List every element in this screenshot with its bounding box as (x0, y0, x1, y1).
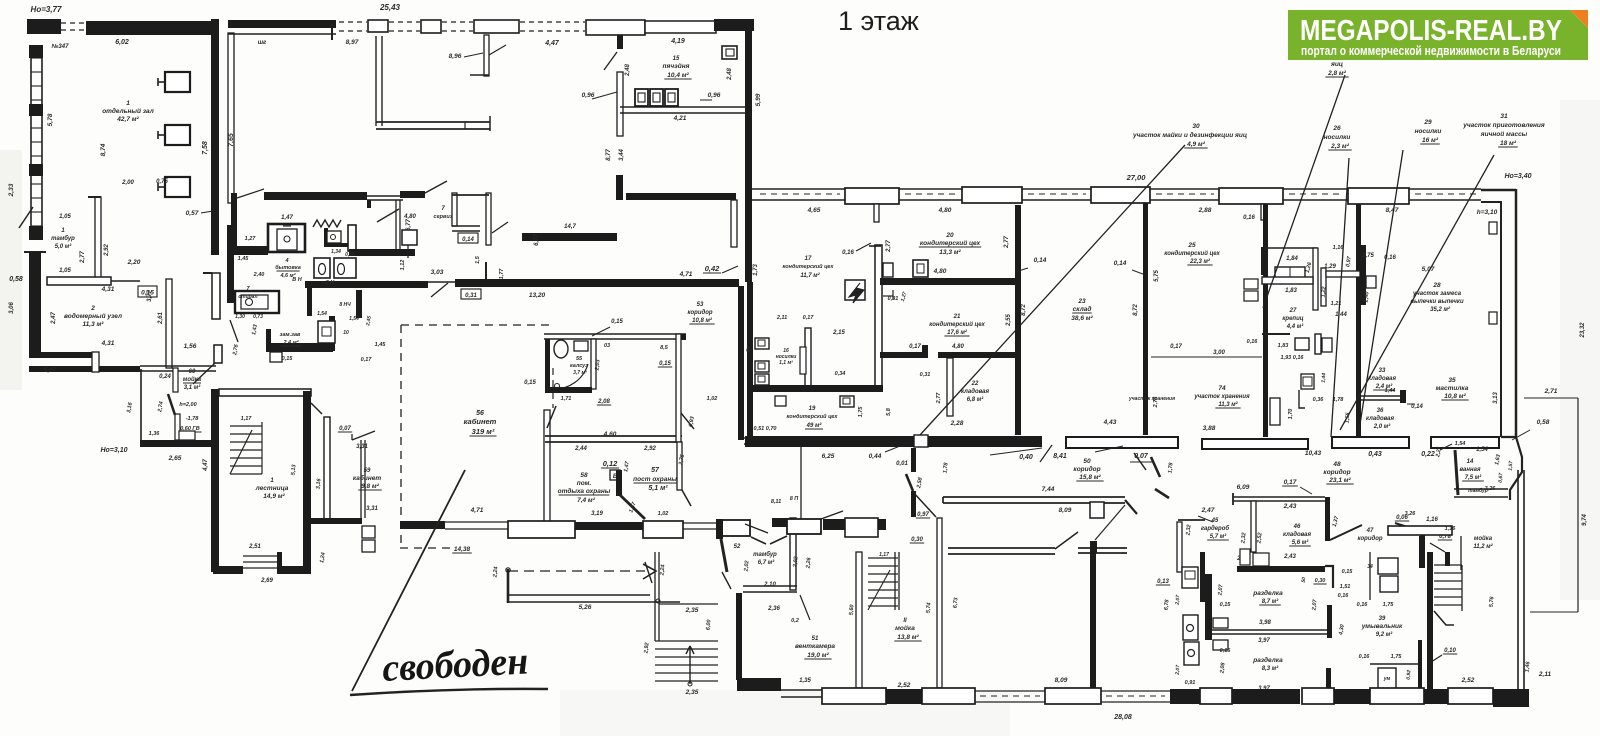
wall x1263 (1263, 204, 1268, 437)
svg-text:10,8 м²: 10,8 м² (692, 317, 713, 324)
svg-text:1,16: 1,16 (1445, 526, 1457, 532)
svg-text:умывальник: умывальник (1361, 623, 1403, 630)
svg-text:пом.: пом. (577, 480, 592, 487)
dashes (520, 21, 585, 23)
svg-text:кондитерский цех: кондитерский цех (920, 239, 981, 247)
serving hatch wall drop (484, 35, 489, 76)
svg-text:2,20: 2,20 (127, 259, 141, 266)
svg-text:15,8 м²: 15,8 м² (1079, 474, 1101, 481)
svg-text:0,16: 0,16 (1243, 215, 1255, 221)
svg-text:10: 10 (343, 330, 349, 336)
svg-text:склад: склад (1073, 305, 1092, 313)
svg-text:2,61: 2,61 (158, 312, 164, 325)
svg-text:1,51: 1,51 (1340, 584, 1351, 590)
hatch door diag (489, 45, 506, 55)
svg-text:0,16: 0,16 (1338, 593, 1350, 599)
svg-text:51: 51 (812, 636, 819, 642)
svg-text:4,21: 4,21 (673, 115, 687, 122)
svg-text:50: 50 (1301, 577, 1307, 583)
svg-text:6,25: 6,25 (822, 453, 835, 460)
door diag wall D (431, 283, 448, 297)
big room top wall y548 (948, 547, 1055, 549)
svg-text:отдельный зал: отдельный зал (102, 107, 154, 115)
svg-text:1,57: 1,57 (1508, 461, 1515, 471)
svg-text:5,0 м²: 5,0 м² (55, 243, 72, 250)
svg-text:2,52: 2,52 (1256, 532, 1263, 544)
main wall D (455, 279, 739, 287)
svg-text:1,70: 1,70 (1288, 409, 1294, 420)
serving room walls (452, 193, 457, 226)
svg-text:1,54: 1,54 (349, 316, 359, 322)
svg-text:1,12: 1,12 (400, 260, 406, 271)
svg-text:кондитерский цех: кондитерский цех (787, 413, 839, 420)
svg-text:тамбур: тамбур (51, 235, 75, 242)
razdelka mid band (1205, 629, 1327, 631)
svg-text:17: 17 (805, 256, 812, 262)
pier r2 (962, 187, 1022, 203)
svg-text:2,92: 2,92 (643, 446, 656, 452)
svg-text:носилки: носилки (1415, 128, 1442, 135)
svg-text:шг: шг (258, 40, 267, 46)
wall x1143 (1143, 203, 1148, 435)
hall table 2 (165, 125, 190, 145)
svg-text:Но=3,40: Но=3,40 (1504, 173, 1531, 180)
svg-text:20: 20 (945, 232, 954, 239)
svg-text:0,24: 0,24 (159, 374, 171, 380)
svg-text:0,15: 0,15 (524, 380, 536, 386)
svg-text:6,8 м²: 6,8 м² (967, 396, 984, 403)
svg-text:319 м²: 319 м² (472, 427, 495, 436)
svg-text:0,16: 0,16 (1247, 339, 1259, 345)
svg-text:крепиц: крепиц (1282, 316, 1303, 322)
svg-text:2,32: 2,32 (1240, 532, 1247, 544)
zamzav room (266, 329, 271, 350)
svg-text:2,07: 2,07 (1311, 598, 1318, 611)
svg-text:50: 50 (1083, 458, 1091, 465)
svg-text:h=3,10: h=3,10 (1477, 209, 1498, 216)
room45 divider (1251, 501, 1256, 552)
svg-text:3,31: 3,31 (366, 506, 378, 512)
pier r4 (1219, 188, 1283, 204)
svg-text:9,8 м²: 9,8 м² (361, 483, 380, 490)
svg-text:3,77: 3,77 (147, 290, 153, 302)
coat zigzag (313, 220, 341, 227)
svg-text:2,33: 2,33 (8, 183, 15, 197)
svg-text:35: 35 (1448, 377, 1456, 384)
svg-text:2,26: 2,26 (805, 556, 812, 569)
wall seg (1150, 188, 1219, 190)
svg-text:55: 55 (576, 356, 583, 362)
svg-text:0,75: 0,75 (156, 179, 168, 185)
door leaf near 425 (425, 181, 447, 193)
svg-text:26: 26 (1332, 125, 1341, 132)
svg-text:2,77: 2,77 (1004, 236, 1010, 249)
svg-text:8,5: 8,5 (660, 345, 669, 351)
dashed boundary kabinet56 (400, 325, 402, 545)
band C kitchen wall (522, 233, 617, 241)
svg-text:кондитерский цех: кондитерский цех (783, 263, 835, 270)
svg-text:3,31: 3,31 (356, 444, 368, 450)
svg-text:тамбур: тамбур (753, 551, 777, 558)
svg-text:3,19: 3,19 (591, 511, 603, 517)
svg-text:2,44: 2,44 (574, 446, 587, 452)
svg-text:0,97: 0,97 (917, 512, 929, 518)
svg-text:0,42: 0,42 (705, 264, 720, 273)
svg-text:36: 36 (1377, 408, 1384, 414)
svg-text:ванная: ванная (1460, 467, 1481, 473)
svg-text:1,36: 1,36 (149, 431, 161, 437)
razdelka top band (1237, 566, 1325, 572)
svg-text:1,1 м²: 1,1 м² (779, 360, 793, 366)
wall below tambour (736, 593, 742, 680)
svg-text:8,09: 8,09 (1059, 507, 1072, 514)
pier r1 mullion stub (874, 204, 879, 222)
svg-text:53: 53 (697, 302, 704, 308)
svg-text:мойка: мойка (183, 376, 202, 383)
svg-text:10,4 м²: 10,4 м² (667, 72, 689, 79)
svg-text:3,1 м²: 3,1 м² (184, 384, 201, 391)
corridor53 top wall (544, 333, 686, 335)
svg-text:участок приготовления: участок приготовления (1462, 122, 1545, 129)
svg-text:участок хранения: участок хранения (1128, 396, 1175, 402)
svg-text:0,91: 0,91 (1185, 680, 1196, 686)
svg-text:2,24: 2,24 (492, 566, 499, 578)
svg-text:портал о коммерческой недвижим: портал о коммерческой недвижимости в Бел… (1301, 43, 1561, 58)
hall counter lines (375, 36, 377, 126)
svg-text:3,88: 3,88 (1203, 425, 1216, 432)
wall x1200 lower (1200, 552, 1205, 602)
svg-text:2,36: 2,36 (767, 606, 780, 612)
svg-text:4,31: 4,31 (101, 286, 115, 293)
svg-text:2,52: 2,52 (1461, 677, 1475, 684)
svg-text:1,78: 1,78 (1333, 397, 1345, 403)
svg-text:1,54: 1,54 (317, 311, 327, 317)
svg-text:1,5: 1,5 (475, 255, 481, 264)
svg-text:2,48: 2,48 (625, 64, 631, 77)
room58 walls (545, 435, 682, 437)
svg-text:9,74: 9,74 (1582, 514, 1588, 526)
svg-text:1,45: 1,45 (238, 256, 250, 262)
svg-text:48: 48 (1332, 461, 1341, 468)
svg-text:6,78: 6,78 (1164, 598, 1171, 610)
svg-text:4,19: 4,19 (670, 38, 685, 45)
room33 bottom wall (1361, 395, 1404, 397)
left window wall (30, 45, 32, 240)
svg-text:38,6 м²: 38,6 м² (1071, 315, 1093, 322)
room55 right wall (591, 339, 596, 389)
svg-text:11,7 м²: 11,7 м² (800, 272, 820, 279)
svg-text:1,78: 1,78 (1168, 461, 1175, 473)
toilet tank (402, 230, 417, 245)
svg-text:0,14: 0,14 (1114, 260, 1127, 267)
svg-text:2,24: 2,24 (659, 564, 666, 576)
room21 notch (883, 295, 893, 297)
left band (231, 246, 268, 255)
svg-text:участок хранения: участок хранения (1193, 394, 1250, 400)
svg-text:0,14: 0,14 (1411, 404, 1423, 410)
svg-text:б: б (746, 347, 750, 354)
room below 34 moyka (1388, 526, 1452, 535)
column box (1090, 502, 1104, 518)
svg-text:кондитерский цех: кондитерский цех (929, 321, 985, 328)
boxes room74 top (1301, 374, 1314, 389)
svg-text:28,08: 28,08 (1113, 714, 1132, 721)
svg-text:4,80: 4,80 (951, 344, 964, 350)
svg-text:1,22: 1,22 (1321, 286, 1328, 297)
svg-text:7,4 м²: 7,4 м² (577, 497, 596, 504)
svg-text:0,01: 0,01 (896, 461, 908, 467)
corridor band y438 (745, 436, 915, 447)
svg-text:29: 29 (1423, 119, 1432, 126)
svg-text:58: 58 (580, 472, 588, 479)
svg-text:2,28: 2,28 (950, 420, 964, 427)
svg-text:0,40: 0,40 (1019, 454, 1033, 461)
svg-text:6,73: 6,73 (953, 597, 960, 608)
svg-text:стирал: стирал (238, 294, 258, 300)
svg-text:5,8: 5,8 (886, 407, 892, 416)
svg-text:4,31: 4,31 (101, 340, 115, 347)
svg-text:8,77: 8,77 (606, 149, 612, 161)
right edge bottom (1517, 470, 1519, 707)
leader 31 (1340, 155, 1494, 430)
svg-text:яичной массы: яичной массы (1480, 130, 1528, 138)
svg-text:кладовая: кладовая (1366, 416, 1395, 422)
svg-text:14,7: 14,7 (564, 224, 576, 230)
svg-text:0,15: 0,15 (611, 319, 623, 325)
building right edge upper (745, 20, 752, 282)
svg-text:8,11: 8,11 (771, 499, 781, 505)
svg-text:коридор: коридор (687, 310, 712, 316)
svg-text:2,08: 2,08 (1219, 661, 1226, 674)
svg-text:4,9 м²: 4,9 м² (1186, 141, 1206, 148)
svg-text:46: 46 (1293, 524, 1301, 530)
svg-text:19,0 м²: 19,0 м² (807, 652, 829, 659)
corridor47 diag walls (1330, 525, 1362, 540)
svg-text:2,43: 2,43 (1283, 503, 1297, 510)
staircase right wall (303, 391, 311, 572)
svg-text:6,7 м²: 6,7 м² (758, 559, 775, 566)
svg-text:4: 4 (284, 258, 288, 264)
room27 wall v (1313, 248, 1318, 310)
ventkamera walls (856, 552, 862, 688)
razdelka bars (1205, 574, 1212, 640)
toilet row (314, 258, 330, 278)
svg-text:25,43: 25,43 (379, 3, 401, 12)
svg-text:13,8 м²: 13,8 м² (897, 634, 919, 641)
door bars corridor (911, 448, 916, 472)
svg-text:13,20: 13,20 (529, 292, 546, 299)
wall x1356 (1356, 204, 1361, 437)
svg-text:1 этаж: 1 этаж (838, 6, 919, 36)
svg-text:7,65: 7,65 (228, 133, 235, 147)
svg-text:0,44: 0,44 (869, 453, 882, 460)
svg-text:8,47: 8,47 (1386, 207, 1399, 214)
kondit17 band (751, 385, 883, 392)
svg-text:0,16: 0,16 (1357, 602, 1369, 608)
svg-text:15: 15 (673, 56, 680, 62)
window boxes right (1489, 222, 1497, 234)
right edge wall double (1515, 189, 1518, 437)
vert dbl wall x396 (395, 200, 397, 256)
svg-text:4,71: 4,71 (470, 507, 484, 514)
door leaf room15 entry (377, 209, 399, 222)
svg-text:9,2 м²: 9,2 м² (1376, 631, 1393, 638)
svg-text:0,17: 0,17 (361, 357, 373, 363)
svg-text:2,11: 2,11 (1538, 671, 1552, 678)
svg-text:2,08: 2,08 (597, 399, 610, 405)
svg-text:3,26: 3,26 (1405, 511, 1417, 517)
long band y281 (305, 281, 428, 288)
svg-text:0,31: 0,31 (888, 296, 899, 302)
svg-text:мойка: мойка (1474, 535, 1493, 542)
svg-text:14,38: 14,38 (454, 546, 471, 553)
svg-text:4,80: 4,80 (933, 268, 947, 275)
svg-text:2,35: 2,35 (685, 607, 699, 614)
svg-text:8,3 м²: 8,3 м² (1262, 665, 1279, 672)
room45 top wall (1233, 496, 1325, 498)
svg-text:гардероб: гардероб (1201, 525, 1230, 532)
room22 left wall (947, 358, 953, 416)
svg-text:27,00: 27,00 (1126, 173, 1147, 182)
svg-text:35,2 м²: 35,2 м² (1430, 306, 1451, 313)
svg-text:2,40: 2,40 (1363, 291, 1370, 303)
svg-text:3,98: 3,98 (1259, 620, 1271, 626)
svg-text:2,07: 2,07 (1175, 665, 1182, 676)
dashes (389, 21, 420, 23)
room16 boxes stack (755, 338, 769, 349)
bottom-left double wall band (29, 352, 95, 358)
svg-text:2,02: 2,02 (743, 560, 750, 572)
svg-text:тамбур: тамбур (1468, 487, 1488, 494)
svg-text:2 Н: 2 Н (325, 280, 336, 286)
room15 door diag (604, 52, 617, 70)
svg-text:3,13: 3,13 (1493, 392, 1499, 404)
hall table 1 (165, 72, 190, 92)
svg-text:бытовка: бытовка (275, 264, 301, 271)
svg-text:зам.зав: зам.зав (280, 332, 301, 338)
svg-text:1,45: 1,45 (375, 342, 387, 348)
svg-text:2,48: 2,48 (727, 68, 733, 81)
left vertical bar (231, 206, 237, 246)
svg-text:венткамера: венткамера (795, 643, 835, 650)
svg-text:5,76: 5,76 (1489, 595, 1496, 607)
wall at x545 lower (544, 410, 550, 522)
svg-text:Но=3,10: Но=3,10 (100, 447, 127, 454)
svg-text:6,77: 6,77 (406, 219, 412, 231)
svg-text:2,8 м²: 2,8 м² (1327, 70, 1347, 77)
svg-text:яиц: яиц (1330, 61, 1343, 68)
svg-text:мастилка: мастилка (1436, 385, 1469, 392)
svg-text:22: 22 (971, 381, 979, 387)
svg-text:4,71: 4,71 (679, 271, 693, 278)
svg-text:0,51 0,70: 0,51 0,70 (754, 426, 777, 432)
svg-text:2,92: 2,92 (643, 642, 650, 654)
svg-text:0,96: 0,96 (582, 92, 595, 99)
room34 walls (1455, 450, 1458, 495)
room27 top line (1262, 247, 1317, 249)
svg-text:2,47: 2,47 (1201, 507, 1215, 514)
svg-text:17,6 м²: 17,6 м² (947, 329, 968, 336)
svg-text:1,17: 1,17 (879, 552, 889, 558)
tambour52 (722, 520, 750, 536)
entry door swing (19, 207, 33, 228)
wall E lower band (744, 437, 800, 439)
staircase top band (219, 389, 311, 396)
svg-text:2,32: 2,32 (1185, 524, 1192, 536)
svg-text:2,11: 2,11 (776, 315, 787, 321)
svg-text:выпечки выпечки: выпечки выпечки (1410, 299, 1464, 305)
svg-text:5,13: 5,13 (291, 464, 298, 475)
room15 wall stub (617, 35, 623, 49)
svg-text:1,02: 1,02 (707, 396, 718, 402)
svg-text:2,43: 2,43 (1283, 554, 1296, 560)
pier with bar drop (368, 20, 388, 32)
pier r1 (845, 188, 899, 204)
pier (421, 20, 441, 33)
svg-text:сервиз: сервиз (434, 214, 453, 220)
svg-text:1,54: 1,54 (1455, 441, 1466, 447)
stairs bottom right (1434, 564, 1462, 566)
svg-text:1,27: 1,27 (245, 236, 257, 242)
vertical bar right x356 (356, 290, 362, 318)
leader 26 (1331, 158, 1349, 437)
svg-text:5,78: 5,78 (47, 113, 54, 126)
svg-text:0,58: 0,58 (1537, 419, 1550, 426)
corridor50 bottom wall (943, 496, 1125, 498)
kabinet59 left wall white-core (324, 417, 330, 520)
dashes (442, 21, 473, 23)
svg-text:1,73: 1,73 (753, 264, 759, 276)
corridor48 top band white-core piers (1066, 437, 1178, 448)
svg-text:кондитерский цех: кондитерский цех (1164, 250, 1220, 257)
door arc room55 (553, 364, 588, 389)
svg-text:2,55: 2,55 (1006, 314, 1012, 327)
svg-text:14,9 м²: 14,9 м² (263, 493, 285, 500)
svg-text:2,40: 2,40 (253, 272, 265, 278)
svg-text:0,34: 0,34 (835, 371, 846, 377)
room60 bottom band (140, 440, 214, 447)
svg-text:0,15: 0,15 (1220, 648, 1232, 654)
svg-text:8,72: 8,72 (1133, 304, 1139, 316)
bottom wall segments (822, 688, 886, 704)
svg-text:кабинет: кабинет (353, 474, 382, 482)
svg-text:0,57: 0,57 (186, 210, 199, 217)
svg-text:52: 52 (734, 544, 741, 550)
sink room bytovka (268, 224, 305, 252)
svg-text:2,51: 2,51 (248, 544, 261, 550)
svg-text:2: 2 (90, 305, 95, 312)
svg-text:2,4 м²: 2,4 м² (282, 339, 298, 346)
svg-text:1,17: 1,17 (241, 416, 253, 422)
svg-text:74: 74 (1218, 385, 1226, 392)
svg-text:18 м²: 18 м² (1500, 140, 1517, 147)
outdoor stair right (654, 552, 656, 641)
top dashes (339, 21, 367, 23)
svg-text:23,1 м²: 23,1 м² (1328, 477, 1351, 484)
svg-text:14: 14 (1467, 459, 1474, 465)
svg-text:1,35: 1,35 (799, 678, 811, 684)
vodomerny top band (47, 277, 111, 285)
storage cluster y334 (1262, 333, 1290, 335)
svg-text:2,88: 2,88 (1198, 207, 1212, 214)
room15 counter (620, 106, 745, 108)
svg-text:5,7 м²: 5,7 м² (1210, 533, 1227, 540)
sofa (1275, 267, 1305, 280)
svg-text:0,15: 0,15 (659, 361, 671, 367)
wall left of wc stack (1177, 522, 1182, 572)
svg-text:1,77: 1,77 (499, 268, 505, 280)
svg-text:1,29: 1,29 (1324, 264, 1336, 270)
